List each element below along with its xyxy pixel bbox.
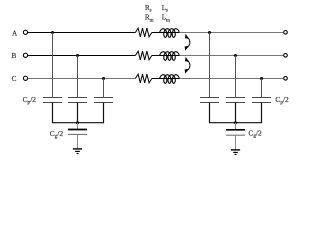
capacitor Cp/2 phase B right	[226, 98, 245, 103]
svg-text:Rs: Rs	[145, 4, 152, 14]
resistor Rs phase B	[135, 51, 151, 60]
capacitor Cp/2 phase B left	[68, 98, 87, 103]
terminal A left	[23, 30, 27, 34]
bus left	[53, 103, 104, 123]
resistor Rs phase C	[135, 74, 151, 83]
terminal C left	[23, 76, 27, 80]
wire Cg to ground right	[235, 135, 237, 150]
wire A left	[28, 32, 136, 34]
wire bus to Cg right	[235, 123, 237, 130]
wire drop B right	[235, 56, 237, 98]
junction A left	[51, 31, 54, 34]
capacitor Cp/2 phase C left	[94, 98, 113, 103]
wire Cg to ground left	[77, 135, 79, 149]
wire C right	[179, 78, 283, 80]
junction C left	[102, 77, 105, 80]
terminal C right	[284, 77, 288, 81]
capacitor Cp/2 phase C right	[252, 98, 271, 103]
capacitor Cg/2 right	[226, 130, 245, 135]
wire drop A left	[52, 33, 54, 98]
svg-text:Cg/2: Cg/2	[248, 129, 262, 140]
svg-text:Cp/2: Cp/2	[275, 95, 289, 106]
svg-text:Ls: Ls	[162, 4, 168, 14]
wire drop B left	[77, 56, 79, 98]
mutual coupling arrow B-C	[185, 57, 190, 74]
junction B left	[76, 54, 79, 57]
svg-text:A: A	[12, 29, 18, 37]
inductor Ls phase C	[160, 75, 180, 84]
wire drop C right	[261, 79, 263, 98]
svg-text:Cg/2: Cg/2	[50, 129, 64, 140]
wire B middle	[152, 55, 180, 57]
svg-text:Rm: Rm	[145, 14, 154, 24]
wire drop C left	[103, 79, 105, 98]
ground right	[231, 150, 240, 155]
wire A middle	[152, 32, 180, 34]
wire C left	[28, 78, 136, 80]
svg-text:Cp/2: Cp/2	[23, 95, 37, 106]
wire bus to Cg left	[77, 123, 79, 130]
svg-text:B: B	[12, 52, 17, 60]
capacitor Cp/2 phase A right	[200, 98, 219, 103]
wire B right	[179, 55, 283, 57]
resistor Rs phase A	[135, 28, 151, 37]
wire A right	[179, 32, 283, 34]
junction A right	[208, 31, 211, 34]
junction bus right	[234, 121, 237, 124]
junction C right	[260, 77, 263, 80]
inductor Ls phase A	[160, 29, 180, 38]
wire C middle	[152, 78, 180, 80]
junction B right	[234, 54, 237, 57]
capacitor Cp/2 phase A left	[43, 98, 62, 103]
junction bus left	[76, 121, 79, 124]
mutual coupling arrow A-B	[185, 34, 190, 51]
bus right	[210, 103, 262, 123]
wire drop A right	[209, 33, 211, 98]
svg-text:C: C	[12, 75, 17, 83]
svg-text:Lm: Lm	[162, 14, 170, 24]
terminal A right	[284, 31, 288, 35]
wire B left	[28, 55, 136, 57]
capacitor Cg/2 left	[68, 130, 87, 135]
ground left	[73, 149, 82, 154]
inductor Ls phase B	[160, 52, 180, 61]
terminal B left	[23, 53, 27, 57]
terminal B right	[284, 54, 288, 58]
